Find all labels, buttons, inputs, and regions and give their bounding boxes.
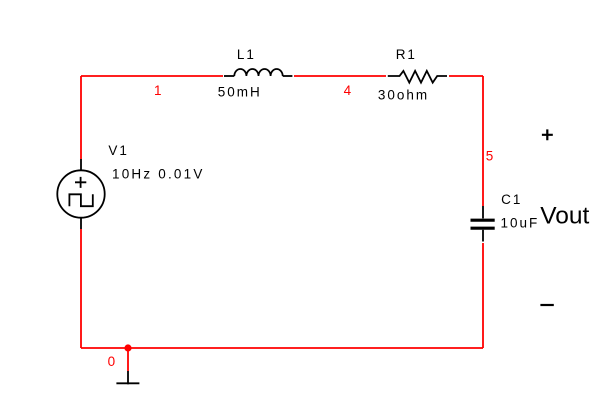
wire right vertical lower — [482, 243, 484, 348]
junction dot node 0 — [124, 344, 131, 351]
plus sign (Vout polarity) — [542, 129, 553, 140]
capacitor C1 — [471, 206, 495, 242]
svg-text:10uF: 10uF — [501, 215, 540, 230]
wire inductor to resistor (node 4) — [294, 75, 386, 77]
minus sign (Vout polarity) — [540, 304, 553, 306]
wire resistor to top-right corner — [449, 75, 483, 77]
wire bottom (node 0) — [81, 347, 483, 349]
wire right vertical upper (node 5) — [482, 76, 484, 206]
voltage source V1 — [57, 159, 104, 229]
wire left vertical upper (node 1) — [80, 76, 82, 159]
svg-text:1: 1 — [154, 83, 164, 98]
svg-text:R1: R1 — [396, 47, 417, 62]
svg-text:L1: L1 — [237, 47, 256, 62]
svg-text:5: 5 — [486, 149, 496, 164]
svg-text:Vout: Vout — [540, 202, 589, 229]
wire top-left to inductor — [81, 75, 223, 77]
svg-text:C1: C1 — [501, 192, 522, 207]
svg-text:4: 4 — [344, 83, 354, 98]
inductor L1 — [224, 69, 292, 76]
wire ground stem (red part) — [127, 348, 129, 371]
svg-text:10Hz 0.01V: 10Hz 0.01V — [112, 167, 205, 182]
svg-text:50mH: 50mH — [218, 84, 262, 99]
svg-text:0: 0 — [108, 354, 118, 369]
wire left vertical lower — [80, 229, 82, 348]
resistor R1 — [388, 71, 447, 83]
ground — [116, 371, 139, 384]
svg-text:30ohm: 30ohm — [378, 88, 429, 103]
svg-text:V1: V1 — [108, 143, 129, 158]
